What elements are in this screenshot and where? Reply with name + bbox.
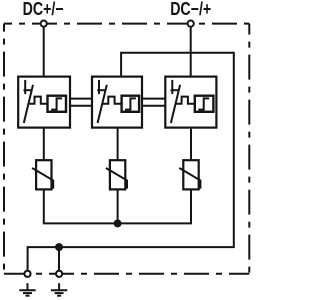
mechanical link U2-U3 (double line) [142, 99, 165, 106]
wire star-point bus joining RV1 and RV3 bottoms [44, 189, 191, 223]
wire terminal X1 to U1 top [43, 24, 45, 77]
svg-text:DC−/+: DC−/+ [170, 0, 211, 19]
mechanical link U1-U2 (double line) [70, 99, 92, 106]
switching spark-gap module U1 [18, 77, 70, 128]
terminal X1 DC+/- [41, 21, 47, 27]
enclosure dash-dot border left [3, 24, 5, 274]
varistor RV1 [32, 160, 53, 189]
terminal X2 DC-/+ [188, 21, 194, 27]
junction star point node [114, 219, 122, 227]
terminal PE1 [24, 271, 30, 277]
enclosure dash-dot border top [4, 23, 249, 25]
ground symbol 2 [51, 283, 67, 296]
terminal PE2 [56, 271, 62, 277]
wire RV2 bottom leg to star point [117, 189, 119, 223]
enclosure dash-dot border bottom [4, 273, 249, 275]
switching spark-gap module U3 [165, 77, 216, 128]
junction PE node [55, 243, 63, 251]
enclosure dash-dot border right [248, 24, 250, 274]
wire terminal X2 to U3 top (crosses PE wire, no junction) [190, 24, 192, 77]
wire U3 bottom to varistor RV3 [190, 128, 192, 161]
ground symbol 1 [19, 283, 35, 296]
wire U1 bottom to varistor RV1 [43, 128, 45, 161]
svg-text:DC+/−: DC+/− [23, 0, 64, 19]
varistor RV3 [179, 160, 200, 189]
switching spark-gap module U2 [92, 77, 142, 128]
varistor RV2 [106, 160, 127, 189]
wire U2 bottom to varistor RV2 [117, 128, 119, 161]
wire PE junction drop to second PE terminal [58, 247, 60, 274]
wire PE branch: U2 top riser, across top, down right side, bottom run, to PE terminal [28, 53, 234, 274]
